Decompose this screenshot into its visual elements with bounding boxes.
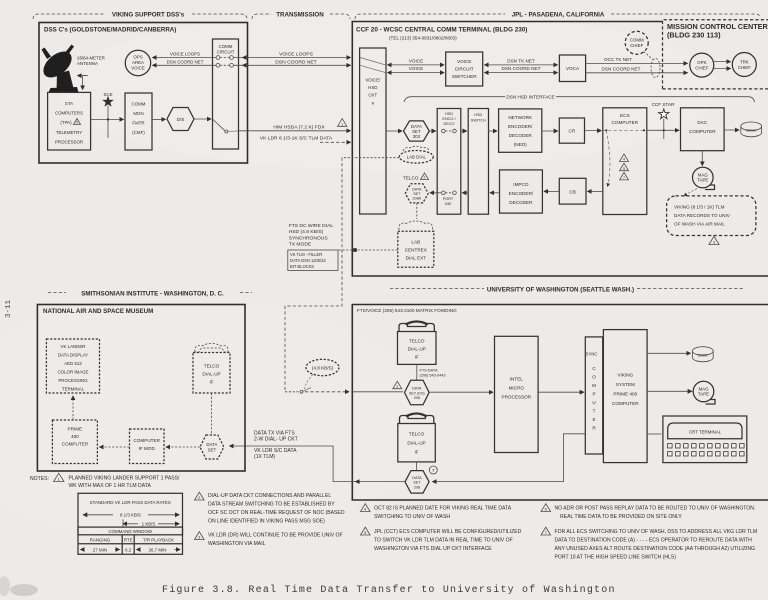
wire VOCA to OPS CHIEF occ tk net (586, 57, 688, 63)
svg-text:CHIEF: CHIEF (630, 43, 643, 48)
note 2 (195, 492, 345, 524)
svg-text:OPS: OPS (697, 60, 706, 65)
svg-text:TO SWITCH VK LDR TLM DATA IN R: TO SWITCH VK LDR TLM DATA IN REAL TIME T… (374, 538, 513, 544)
svg-text:VIKING SUPPORT DSS's: VIKING SUPPORT DSS's (112, 12, 185, 19)
wire CR to ECS (585, 130, 602, 132)
LAB DIAL dashed ellipse with phone (399, 146, 433, 163)
svg-text:CRT TERMINAL: CRT TERMINAL (689, 430, 722, 435)
NETWORK ENCODER/DECODER box (499, 109, 542, 152)
svg-text:SET: SET (413, 192, 421, 196)
antenna dish (39, 45, 79, 93)
svg-text:CCF 20 - WCSC CENTRAL COMM TE: CCF 20 - WCSC CENTRAL COMM TERMINAL (BLD… (356, 27, 527, 34)
smithsonian TELCO DIAL-UP IF (dashed with phone) (193, 343, 230, 393)
svg-text:400: 400 (71, 434, 79, 439)
wire data set 303 to HSD enco (429, 130, 435, 132)
svg-text:O: O (592, 375, 596, 380)
svg-text:MICRO: MICRO (509, 386, 525, 391)
svg-text:VOICE LOOPS: VOICE LOOPS (170, 52, 200, 57)
svg-text:HIM HSDA (7.2 K) FDX: HIM HSDA (7.2 K) FDX (273, 124, 325, 130)
svg-text:FTS DC WIRE DIAL: FTS DC WIRE DIAL (289, 223, 334, 229)
svg-text:DECO: DECO (444, 122, 455, 126)
svg-text:WK WITH MAX OF 1 HR TLM DATA: WK WITH MAX OF 1 HR TLM DATA (69, 483, 152, 489)
svg-text:COLOR IMAGE: COLOR IMAGE (58, 370, 89, 375)
svg-text:303: 303 (413, 134, 421, 139)
svg-text:DAC: DAC (697, 120, 707, 125)
wire switcher to VOCA dsn tk net (485, 58, 558, 65)
svg-text:PRIME: PRIME (68, 427, 83, 432)
svg-text:DATA DISPLAY: DATA DISPLAY (58, 353, 88, 358)
svg-text:PORT 10 AT THE HIGH SPEED LINE: PORT 10 AT THE HIGH SPEED LINE SWITCH (H… (555, 555, 677, 561)
svg-text:SET: SET (208, 448, 217, 453)
svg-text:CIRCUIT: CIRCUIT (455, 67, 474, 72)
svg-text:DATA: DATA (412, 387, 422, 391)
wire voice loops (ops area voice to comm circuit) (153, 57, 217, 59)
svg-text:CB: CB (569, 190, 575, 195)
svg-text:VOICE: VOICE (409, 58, 423, 63)
svg-text:VOICE LOOPS: VOICE LOOPS (279, 51, 313, 57)
VIKING SYSTEM PRIME 400 COMPUTER box (603, 330, 647, 463)
svg-text:ENCODER/: ENCODER/ (509, 191, 534, 196)
svg-text:VOICE: VOICE (409, 66, 423, 71)
svg-text:Figure 3.8. Real Time Data Tr: Figure 3.8. Real Time Data Transfer to U… (162, 584, 616, 596)
DATA SET 303 hexagon (404, 121, 430, 141)
svg-text:#30: #30 (445, 202, 451, 206)
note triangles 4 5 7 in ECS (620, 154, 629, 162)
svg-text:SYSTEM: SYSTEM (616, 382, 635, 387)
CCF STAR (652, 102, 676, 139)
wire panel to voice circuit switcher (x2) (388, 58, 445, 65)
dashed wire VK lander to PRIME 400 (72, 396, 74, 420)
svg-text:DSS C's (GOLDSTONE/MADRID/CANB: DSS C's (GOLDSTONE/MADRID/CANBERRA) (44, 27, 176, 34)
SYNC COMPUTER narrow box (585, 337, 602, 454)
svg-text:DISC: DISC (746, 128, 756, 133)
COMM CHIEF circle (dashed) (625, 31, 648, 54)
svg-text:DSN TK NET: DSN TK NET (507, 58, 535, 63)
NATIONAL AIR AND SPACE MUSEUM box (37, 305, 245, 472)
transmission wire dsn coord net (234, 59, 351, 65)
wire lower data set exits UW to smithsonian (230, 446, 406, 482)
svg-text:COMPUTER: COMPUTER (612, 120, 639, 125)
wire D/S to comm circuit (194, 118, 211, 120)
svg-text:SWITCHER: SWITCHER (452, 74, 477, 79)
note triangle 2 at UW data set (393, 381, 402, 389)
wire HSD switch to NED (489, 130, 498, 132)
SCE star (102, 92, 114, 138)
svg-text:DATA: DATA (412, 476, 422, 480)
svg-text:SYNC: SYNC (586, 352, 598, 357)
svg-text:26/64-METER: 26/64-METER (77, 56, 105, 61)
wire data set 208 to intel (429, 391, 493, 393)
IMPCO ENCODER/DECODER box (500, 170, 543, 213)
transmission wire HIM HSDA (239, 124, 351, 131)
UW DISC cylinder (692, 347, 713, 362)
note 7 (541, 527, 757, 560)
patch points dsn coord net (216, 63, 233, 67)
svg-text:WASHINGTON VIA MAIL: WASHINGTON VIA MAIL (208, 541, 266, 547)
wires OPS to TRK chief (714, 61, 731, 63)
transmission wire VK LDR TLM (dashed) (260, 135, 351, 142)
STA computers box (48, 92, 91, 150)
svg-text:TRK: TRK (740, 60, 749, 65)
dashed path inside ECS (603, 129, 647, 131)
wire dsn coord net (ops area voice to comm circuit) (153, 64, 217, 66)
svg-text:HSD: HSD (445, 112, 453, 116)
svg-text:COMMAND WINDOW: COMMAND WINDOW (108, 529, 153, 534)
svg-text:HSD: HSD (474, 113, 482, 117)
svg-text:DECODER: DECODER (509, 133, 533, 138)
svg-text:BIT BLOCKS: BIT BLOCKS (290, 264, 314, 269)
svg-text:2-W DIAL- UP CKT: 2-W DIAL- UP CKT (254, 436, 298, 442)
svg-text:26.7 MIN: 26.7 MIN (149, 547, 167, 552)
svg-text:M: M (592, 383, 596, 388)
D/S hexagon (167, 108, 194, 131)
svg-text:OF WASH VIA AIR MAIL: OF WASH VIA AIR MAIL (674, 222, 725, 227)
svg-text:CR: CR (569, 129, 576, 134)
svg-text:SWITCH: SWITCH (471, 119, 486, 123)
svg-text:DIAL-UP: DIAL-UP (407, 441, 425, 446)
svg-text:TELEMETRY: TELEMETRY (56, 130, 82, 135)
svg-text:COMPUTER: COMPUTER (612, 401, 639, 406)
svg-text:3-11: 3-11 (5, 299, 13, 318)
wire lab dial out of CCF (dashed) (342, 157, 399, 159)
wire lower telco to lower data set (416, 462, 418, 471)
svg-text:PROCESSOR: PROCESSOR (55, 140, 83, 145)
VK LANDER display dashed box (46, 339, 99, 393)
svg-text:MON: MON (133, 111, 143, 116)
wire switcher to VOCA dsn coord net (485, 66, 558, 72)
TELCO label + note triangle 2 (403, 173, 429, 181)
wire CB to IMPCO (544, 190, 559, 192)
svg-text:ENCO-/: ENCO-/ (442, 117, 456, 121)
svg-text:ANY UNUSED AXES ALT ROUTE DEST: ANY UNUSED AXES ALT ROUTE DESTINATION CO… (555, 546, 756, 552)
svg-text:DATA RECORDS TO UNIV: DATA RECORDS TO UNIV (674, 213, 731, 218)
svg-text:TELCO: TELCO (409, 432, 425, 437)
note 5 (361, 527, 522, 552)
DSN HSD INTERFACE brace label (404, 95, 755, 102)
dashed wire lab centrex to filler box, connector square (339, 249, 398, 251)
svg-text:ANTENNA: ANTENNA (77, 61, 98, 66)
DAC COMPUTER box (681, 108, 725, 151)
svg-text:PROCESSOR: PROCESSOR (501, 395, 531, 400)
svg-text:VOICE/: VOICE/ (365, 78, 381, 83)
wire sync computer down to lower data set 208 (433, 434, 586, 482)
UNIVERSITY OF WASHINGTON header (390, 287, 745, 294)
svg-text:TELCO: TELCO (403, 176, 419, 181)
dashed wire data set to computer mod (166, 446, 200, 448)
svg-text:VK LDR 8 1/3-1K S/C TLM DATA: VK LDR 8 1/3-1K S/C TLM DATA (260, 135, 333, 141)
patch oval at MCC boundary (651, 59, 660, 78)
PRIME 400 COMPUTER dashed box (52, 420, 97, 464)
wire panel to data set 303 (386, 130, 402, 132)
svg-text:NETWORK: NETWORK (508, 115, 533, 120)
svg-text:RANGING: RANGING (90, 537, 111, 542)
svg-text:2: 2 (396, 385, 398, 389)
dashed wire telco to data set (211, 393, 213, 435)
transmission wire voice loops (234, 51, 351, 57)
svg-text:DATA STREAM SWITCHING TO BE ES: DATA STREAM SWITCHING TO BE ESTABLISHED … (208, 502, 335, 508)
svg-text:T: T (593, 409, 596, 414)
svg-text:ENCODER/: ENCODER/ (508, 124, 533, 129)
svg-text:(CMF): (CMF) (132, 130, 145, 135)
port 30 patch points (442, 191, 446, 195)
svg-text:DATA TO DESTINATION CODE (A) -: DATA TO DESTINATION CODE (A) - - - - ECS… (555, 538, 753, 544)
svg-text:TERMINAL: TERMINAL (62, 387, 85, 392)
svg-text:DSN COORD NET: DSN COORD NET (502, 66, 541, 71)
svg-text:8 1/3 KB/S: 8 1/3 KB/S (120, 513, 141, 518)
svg-text:DSN COORD NET: DSN COORD NET (275, 59, 316, 65)
wire STA to CMF (91, 118, 124, 120)
svg-text:SWITCHING TO UNIV OF WASH: SWITCHING TO UNIV OF WASH (374, 514, 450, 520)
dashed leader magtape to airmail note (684, 189, 697, 197)
svg-text:OPS: OPS (133, 55, 142, 60)
svg-text:(206) 543-0443: (206) 543-0443 (420, 374, 446, 378)
svg-text:LAB: LAB (411, 240, 420, 245)
dashed wire 208A to lab centrex (416, 203, 418, 219)
svg-text:CKT: CKT (368, 93, 377, 98)
UW lower TELCO DIAL-UP IF with phone (398, 414, 436, 462)
svg-text:STANDARD VK LDR PASS DATA RATE: STANDARD VK LDR PASS DATA RATES (90, 500, 171, 505)
VK TLM filler data box (288, 250, 338, 271)
svg-text:DSN HSD INTERFACE: DSN HSD INTERFACE (506, 95, 554, 100)
svg-text:COMPUTER: COMPUTER (689, 129, 716, 134)
dashed trunk down from CCF (285, 158, 342, 392)
UW upper TELCO DIAL-UP IF with phone (398, 322, 437, 365)
svg-text:CCF STAR: CCF STAR (652, 102, 676, 107)
svg-text:VOICE: VOICE (457, 59, 471, 64)
svg-text:(BLDG 230 113): (BLDG 230 113) (667, 31, 721, 40)
svg-text:RTE: RTE (124, 537, 133, 542)
svg-text:5: 5 (623, 167, 625, 171)
svg-text:208: 208 (414, 485, 420, 489)
svg-text:HSD: HSD (368, 85, 377, 90)
svg-text:REAL TIME DATA TO BE PROVIDED: REAL TIME DATA TO BE PROVIDED ON SITE ON… (560, 514, 682, 520)
svg-text:IF: IF (414, 450, 418, 455)
CB box (559, 178, 586, 204)
svg-text:VK TLM - FILLER: VK TLM - FILLER (290, 252, 322, 257)
svg-text:COMPUTER: COMPUTER (133, 438, 160, 443)
svg-text:TAPE: TAPE (698, 392, 709, 397)
svg-text:CHIEF: CHIEF (695, 66, 708, 71)
svg-text:COMM: COMM (630, 38, 644, 43)
wire TELCO to data set 208 w/ FTS-DATA label (416, 364, 418, 380)
svg-text:COMM: COMM (219, 44, 233, 49)
svg-text:CENTREX: CENTREX (405, 248, 427, 253)
CRT TERMINAL (663, 416, 747, 463)
wire antenna to STA computers (83, 75, 86, 77)
wire port30 to data set 208A (430, 192, 442, 194)
svg-text:OCC TK NET: OCC TK NET (604, 57, 632, 62)
UW lower DATA SET 208 hexagon (405, 471, 429, 494)
svg-text:IF MOD: IF MOD (139, 446, 156, 451)
section label JPL - PASADENA, CALIFORNIA (355, 12, 760, 20)
svg-text:DISC: DISC (698, 352, 708, 357)
SMITHSONIAN INSTITUTE header (48, 291, 252, 298)
TRK CHIEF circle (732, 53, 756, 77)
NOTES heading + note 1 (30, 473, 180, 489)
svg-text:1 KB/S: 1 KB/S (142, 522, 156, 527)
svg-text:DIAL-UP: DIAL-UP (202, 372, 220, 377)
wire HSD switch to port 30 (462, 192, 468, 194)
DISC cylinder (741, 122, 762, 137)
svg-text:27 MIN: 27 MIN (93, 547, 107, 552)
OPS AREA VOICE circle (125, 50, 150, 75)
svg-text:VOICE: VOICE (131, 66, 145, 71)
note triangle 5 in STA box (74, 119, 81, 125)
svg-text:5: 5 (76, 121, 78, 125)
svg-text:2: 2 (424, 176, 426, 180)
DATA SET 208A dashed hexagon (405, 184, 428, 203)
svg-text:SET: SET (413, 481, 421, 485)
svg-text:INTEL: INTEL (510, 377, 524, 382)
svg-text:CIRCUIT: CIRCUIT (217, 50, 235, 55)
svg-text:TELCO: TELCO (409, 339, 425, 344)
HSD switch contact in comm circuit (213, 120, 239, 134)
svg-text:WASHINGTON VIA FTS DIAL UP CKT: WASHINGTON VIA FTS DIAL UP CKT INTERFACE (374, 546, 492, 552)
svg-text:ON LINE IDENTIFIED IN VIKING P: ON LINE IDENTIFIED IN VIKING PASS MSG SO… (208, 519, 325, 525)
note triangle 1 at HSDA wire (338, 119, 347, 127)
wire prime to CRT terminal (647, 433, 661, 435)
svg-text:208: 208 (414, 396, 420, 400)
svg-text:AED 512: AED 512 (64, 361, 82, 366)
wire DAC to MAG TAPE (701, 151, 703, 166)
svg-text:IF: IF (415, 355, 419, 360)
VOICE/HSD CKT patch panel (360, 48, 386, 214)
wire VOCA to OPS CHIEF dsn coord net (586, 66, 688, 72)
section label TRANSMISSION (252, 12, 350, 20)
svg-text:7: 7 (623, 176, 625, 180)
INTEL MICRO PROCESSOR box (495, 336, 539, 452)
FTS dial mode text block (289, 223, 334, 248)
patch points HSD (442, 129, 446, 133)
svg-text:IF: IF (209, 380, 213, 385)
circled note 7 (429, 466, 437, 474)
svg-text:IMPCO: IMPCO (513, 182, 529, 187)
wire ECS to DAC via star (647, 129, 679, 131)
wire UW edge to data set 208 (352, 391, 403, 393)
svg-text:NOTES:: NOTES: (30, 476, 49, 482)
UW MAG TAPE reel (693, 381, 715, 404)
svg-text:SYNCHRONOUS: SYNCHRONOUS (289, 235, 329, 241)
svg-text:208A: 208A (412, 197, 421, 201)
wire IMPCO to HSD switch (490, 192, 500, 194)
svg-text:UNIVERSITY OF WASHINGTON (SEAT: UNIVERSITY OF WASHINGTON (SEATTLE WASH.) (487, 287, 634, 294)
svg-text:COMM: COMM (132, 102, 146, 107)
svg-text:DATA: DATA (412, 188, 422, 192)
svg-text:LAB DIAL: LAB DIAL (407, 155, 427, 160)
svg-text:DECODER: DECODER (509, 200, 533, 205)
section label VIKING SUPPORT DSS's (33, 12, 247, 20)
VOICE CIRCUIT SWITCHER box (446, 52, 483, 86)
wire ECS to CB (588, 190, 603, 192)
svg-text:VK LANDER: VK LANDER (61, 344, 86, 349)
wire HSD enco to HSD switch (461, 130, 467, 132)
MAG TAPE reel (JPL) (693, 167, 715, 189)
note 3 (195, 532, 343, 547)
ECS COMPUTER box (603, 108, 647, 215)
data rates table (78, 493, 183, 554)
svg-text:(TEL (213) 354-0831/0802/0803): (TEL (213) 354-0831/0802/0803) (389, 36, 457, 41)
UW DATA SET (DS) 208 hexagon (405, 380, 430, 405)
svg-text:NO ADR OR POST PASS REPLAY DAT: NO ADR OR POST PASS REPLAY DATA TO BE RO… (555, 506, 756, 512)
svg-text:CHIEF: CHIEF (738, 65, 751, 70)
svg-text:(4.8 KB/S): (4.8 KB/S) (312, 366, 334, 371)
HSD SWITCH box (468, 109, 488, 215)
svg-text:DSN COORD NET: DSN COORD NET (602, 66, 641, 71)
UW box frame (352, 305, 768, 501)
svg-text:OCF SC OCT ON REAL-TIME REQUES: OCF SC OCT ON REAL-TIME REQUEST OF NOC (… (208, 510, 345, 516)
svg-text:COMPUTERS: COMPUTERS (55, 111, 83, 116)
wire intel to sync computer (538, 391, 584, 393)
svg-text:STA: STA (65, 101, 73, 106)
svg-text:TELCO: TELCO (204, 364, 220, 369)
note 6 (541, 504, 755, 520)
OPS CHIEF circle (690, 53, 714, 77)
labels data tx via fts (254, 431, 298, 460)
patch points voice loops (216, 56, 233, 60)
COMM CIRCUIT box (213, 39, 239, 149)
note triangle 3 below air mail note (709, 236, 719, 244)
svg-text:AREA: AREA (132, 60, 144, 65)
patch panel cross connects (360, 58, 386, 65)
HSD ENCO/DECO + PORT 30 patch box (437, 109, 461, 215)
svg-text:SMITHSONIAN INSTITUTE - WASHIN: SMITHSONIAN INSTITUTE - WASHINGTON, D. C… (81, 291, 224, 298)
4.8 KB/S dashed bubble (305, 359, 340, 389)
svg-text:VIKING (8 1/3 / 1K) TLM: VIKING (8 1/3 / 1K) TLM (674, 205, 725, 210)
wire prime to UW mag tape (647, 390, 692, 392)
svg-text:1: 1 (341, 122, 343, 126)
svg-text:DIAL EXT: DIAL EXT (406, 256, 427, 261)
DSS station box (39, 23, 248, 164)
LAB CENTREX dial ext (dashed, phone on top) (398, 221, 434, 267)
MISSION CONTROL CENTER dashed frame (663, 20, 768, 89)
svg-text:PROCESSING: PROCESSING (58, 378, 88, 383)
wire DAC to DISC (724, 129, 739, 131)
CR box (559, 118, 584, 143)
svg-text:(NED): (NED) (514, 142, 527, 147)
svg-text:JPL (CCT) ECS COMPUTER WILL BE: JPL (CCT) ECS COMPUTER WILL BE CONFIGURE… (374, 529, 522, 535)
wire prime to UW disc (647, 352, 690, 354)
svg-text:VOCA: VOCA (566, 66, 580, 71)
svg-text:TX MODE: TX MODE (289, 242, 312, 248)
wire NED to CR (542, 130, 558, 132)
dashed wire computer mod to prime (100, 446, 130, 448)
svg-text:4: 4 (623, 158, 625, 162)
svg-text:DIAL-UP: DIAL-UP (408, 347, 426, 352)
svg-text:PRIME 400: PRIME 400 (613, 392, 637, 397)
CMF box (125, 93, 152, 150)
svg-text:P: P (592, 392, 595, 397)
svg-text:SET (DS): SET (DS) (409, 391, 425, 395)
dial-up switch contact (285, 388, 349, 394)
svg-text:PORT: PORT (443, 197, 454, 201)
smithsonian DATA SET dashed hexagon (200, 435, 224, 459)
svg-text:E: E (592, 417, 595, 422)
VOCA box (559, 55, 585, 82)
svg-text:DATA: DATA (206, 442, 217, 447)
svg-text:COMPUTER: COMPUTER (62, 442, 89, 447)
svg-text:T/R PLAYBACK: T/R PLAYBACK (143, 537, 174, 542)
svg-text:FOR ALL ECS SWITCHING TO UNIV: FOR ALL ECS SWITCHING TO UNIV OF WASH, D… (555, 529, 758, 535)
svg-text:(1X TLM): (1X TLM) (254, 454, 275, 460)
COMPUTER IF MOD dashed box (130, 429, 165, 464)
svg-text:6.2: 6.2 (125, 547, 132, 552)
svg-text:U: U (592, 400, 595, 405)
svg-text:VK LDR (DR) WILL CONTINUE TO B: VK LDR (DR) WILL CONTINUE TO BE PROVIDE … (208, 533, 343, 539)
svg-text:FTS/VOICE (206) 543-2100 MATR: FTS/VOICE (206) 543-2100 MATRIX FOWDING (357, 308, 457, 313)
VIKING TLM records air mail note (rounded dashed) (667, 196, 756, 236)
svg-text:DATA DSN 1200/22: DATA DSN 1200/22 (290, 258, 327, 263)
svg-text:PLANNED VIKING LANDER SUPPORT: PLANNED VIKING LANDER SUPPORT 1 PASS/ (69, 476, 181, 482)
